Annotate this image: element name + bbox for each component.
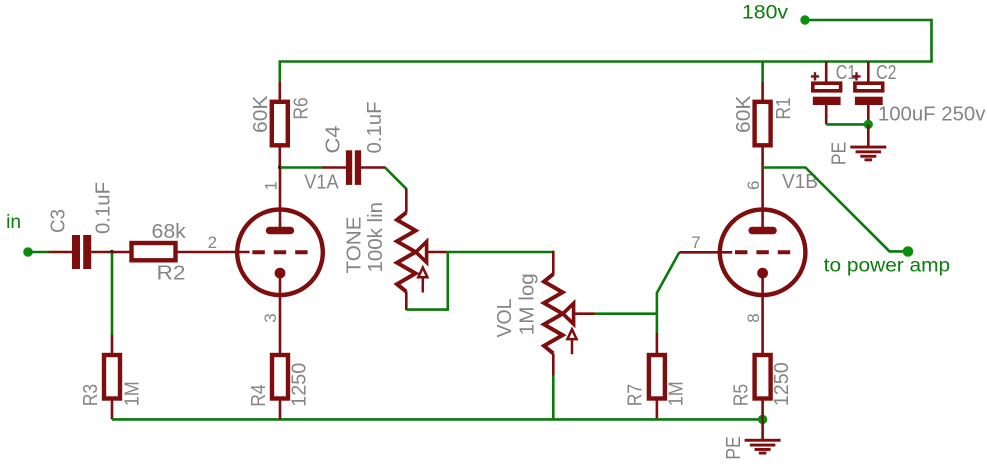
potentiometer VOL pin 2 lead bbox=[552, 353, 555, 376]
node in: junction dot bbox=[23, 247, 33, 257]
capacitor C1 polarity + bbox=[811, 72, 819, 80]
tube V1A cathode dot bbox=[275, 268, 286, 279]
svg-text:68k: 68k bbox=[152, 221, 187, 243]
capacitor C1 bottom plate bbox=[813, 97, 841, 105]
node anode A junction dark dot bbox=[278, 165, 282, 169]
tube V1A pin 1 lead (anode) bbox=[279, 168, 282, 229]
tube V1B cathode dot bbox=[757, 268, 768, 279]
svg-text:R4: R4 bbox=[248, 384, 270, 407]
wire: TONE bottom to wiper loop bbox=[406, 252, 448, 310]
capacitor C4 pin 2 lead bbox=[361, 166, 386, 169]
resistor R5 pin 2 lead bbox=[761, 399, 764, 420]
potentiometer VOL wiper arrow bbox=[563, 303, 574, 324]
resistor R7 pin 1 lead bbox=[656, 333, 659, 356]
wire: ground return bus bbox=[112, 418, 763, 421]
wire: bus drop to R6 bbox=[278, 62, 281, 83]
capacitor C2 top plate bbox=[855, 83, 883, 91]
resistor R5 bbox=[755, 355, 771, 399]
wire: input to C3 bbox=[28, 251, 50, 254]
resistor R3 pin 2 lead bbox=[111, 399, 114, 420]
capacitor C2 bottom plate bbox=[855, 97, 883, 105]
svg-text:6: 6 bbox=[744, 181, 763, 190]
potentiometer TONE adjust arrow bbox=[418, 268, 427, 293]
tube V1B pin 7 lead (grid) bbox=[679, 251, 732, 254]
ground PE (filter) symbol bbox=[850, 146, 886, 149]
wire: bus drop to R1 bbox=[761, 62, 764, 83]
svg-text:100k lin: 100k lin bbox=[365, 202, 387, 273]
wire: V1A anode to C4 bbox=[280, 166, 323, 169]
resistor R2 bbox=[132, 243, 176, 260]
svg-text:100uF 250v: 100uF 250v bbox=[878, 103, 986, 125]
ground PE (bus) stem bbox=[761, 419, 764, 439]
resistor R3 bbox=[104, 355, 120, 399]
capacitor C4 plate 1 bbox=[346, 150, 352, 185]
potentiometer TONE wiper lead bbox=[427, 251, 447, 254]
svg-text:PE: PE bbox=[723, 436, 745, 460]
resistor R6 bbox=[272, 102, 288, 146]
svg-text:V1A: V1A bbox=[304, 172, 339, 194]
svg-text:R2: R2 bbox=[157, 263, 186, 285]
svg-text:R3: R3 bbox=[80, 384, 102, 407]
svg-text:0.1uF: 0.1uF bbox=[93, 182, 115, 234]
potentiometer TONE wiper arrow bbox=[416, 242, 427, 263]
wire: grid node up diagonal to pin 7 bbox=[657, 252, 679, 313]
svg-text:180v: 180v bbox=[742, 2, 789, 23]
svg-text:R5: R5 bbox=[730, 384, 752, 407]
capacitor C2 pin 1 lead bbox=[867, 62, 870, 84]
svg-text:PE: PE bbox=[829, 142, 851, 166]
wire: V1B anode node to output diagonal bbox=[763, 168, 904, 252]
potentiometer VOL pin 1 lead bbox=[552, 251, 555, 275]
svg-text:1: 1 bbox=[261, 181, 280, 190]
svg-text:1M log: 1M log bbox=[516, 273, 538, 335]
capacitor C4 plate 2 bbox=[355, 150, 361, 185]
svg-text:TONE: TONE bbox=[344, 217, 366, 274]
capacitor C3 pin 2 lead bbox=[91, 251, 112, 254]
svg-text:R1: R1 bbox=[773, 97, 795, 119]
wire: VOL bottom to ground bus bbox=[552, 376, 555, 420]
svg-text:1M: 1M bbox=[121, 381, 143, 406]
svg-text:8: 8 bbox=[744, 313, 763, 322]
capacitor C3 plate 2 bbox=[83, 235, 91, 269]
node cathode bus junction dot bbox=[758, 415, 767, 424]
potentiometer TONE pin 1 lead bbox=[405, 188, 408, 212]
wire: 180v feed horizontal from node to right corner bbox=[803, 19, 932, 22]
potentiometer VOL adjust arrow bbox=[567, 329, 576, 354]
svg-text:1M: 1M bbox=[665, 381, 687, 406]
potentiometer VOL wiper lead bbox=[574, 312, 595, 315]
resistor R4 pin 2 lead bbox=[279, 399, 282, 420]
ground PE (bus) symbol bbox=[745, 439, 781, 442]
svg-text:C4: C4 bbox=[323, 126, 345, 154]
wire: grid node down to R3 bbox=[111, 252, 114, 336]
svg-text:3: 3 bbox=[261, 313, 280, 322]
wire: HT supply bus horizontal bbox=[279, 60, 933, 63]
wire: C4 to TONE diagonal bbox=[385, 168, 406, 189]
resistor R3 pin 1 lead bbox=[111, 335, 114, 356]
svg-text:60K: 60K bbox=[733, 95, 755, 133]
capacitor C4 pin 1 lead bbox=[322, 166, 346, 169]
resistor R1 bbox=[755, 102, 771, 146]
tube V1B grid dashes bbox=[735, 250, 790, 254]
svg-text:VOL: VOL bbox=[494, 298, 516, 337]
ground PE (filter) stem bbox=[867, 124, 870, 146]
capacitor C1 pin 1 lead bbox=[825, 62, 828, 84]
tube V1A grid dashes bbox=[252, 250, 307, 254]
node 180v: junction dot bbox=[800, 15, 809, 24]
svg-text:to power amp: to power amp bbox=[824, 256, 951, 277]
potentiometer VOL resistive element bbox=[544, 274, 563, 353]
wire: C1 bottom to PE junction bbox=[826, 123, 866, 126]
node to power amp: junction dot bbox=[903, 246, 914, 257]
wire: TONE wiper to VOL top bbox=[447, 251, 554, 254]
tube V1B anode plate bar bbox=[748, 227, 776, 234]
node PE filter junction dot bbox=[864, 120, 873, 129]
svg-text:1250: 1250 bbox=[771, 362, 793, 406]
resistor R7 bbox=[649, 355, 665, 399]
capacitor C3 plate 1 bbox=[72, 235, 80, 269]
op-amp — tube V1A envelope bbox=[237, 210, 323, 296]
resistor R4 bbox=[272, 355, 288, 399]
tube V1A pin 3 lead (cathode) bbox=[279, 273, 282, 355]
wire: grid node down to R7 bbox=[656, 314, 659, 334]
resistor R1 pin 2 lead bbox=[761, 145, 764, 168]
tube V1B pin 6 lead (anode) bbox=[761, 168, 764, 229]
svg-text:60K: 60K bbox=[250, 95, 272, 133]
capacitor C2 polarity + bbox=[852, 72, 860, 80]
svg-text:in: in bbox=[6, 212, 21, 233]
svg-text:7: 7 bbox=[691, 233, 700, 252]
svg-text:0.1uF: 0.1uF bbox=[364, 102, 386, 154]
svg-text:C1: C1 bbox=[836, 62, 856, 84]
capacitor C1 top plate bbox=[813, 83, 841, 91]
tube V1A anode plate bar bbox=[266, 227, 294, 234]
node grid junction dark dot bbox=[110, 250, 114, 254]
potentiometer TONE pin 2 lead bbox=[405, 292, 408, 311]
svg-text:C3: C3 bbox=[48, 209, 70, 233]
capacitor C3 pin 1 lead bbox=[49, 251, 73, 254]
tube V1B pin 8 lead (cathode) bbox=[761, 273, 764, 356]
svg-text:R7: R7 bbox=[625, 384, 647, 407]
resistor R6 pin 2 lead bbox=[278, 145, 281, 168]
svg-text:C2: C2 bbox=[876, 62, 896, 84]
wire: 180v feed vertical down to HT bus bbox=[930, 19, 933, 62]
capacitor C1 pin 2 lead bbox=[825, 105, 828, 124]
potentiometer TONE resistive element bbox=[397, 212, 416, 291]
wire: VOL wiper to grid node bbox=[595, 312, 657, 315]
resistor R1 pin 1 lead bbox=[761, 82, 764, 103]
resistor R6 pin 1 lead bbox=[278, 82, 281, 103]
svg-text:2: 2 bbox=[208, 233, 217, 252]
capacitor C2 pin 2 lead bbox=[867, 105, 870, 124]
tube V1A pin 2 lead (grid) bbox=[175, 251, 249, 254]
op-amp — tube V1B envelope bbox=[720, 210, 806, 296]
svg-text:R6: R6 bbox=[290, 97, 312, 119]
resistor R2 pin 1 lead bbox=[112, 251, 132, 254]
resistor R7 pin 2 lead bbox=[656, 399, 659, 420]
svg-text:1250: 1250 bbox=[289, 363, 311, 407]
